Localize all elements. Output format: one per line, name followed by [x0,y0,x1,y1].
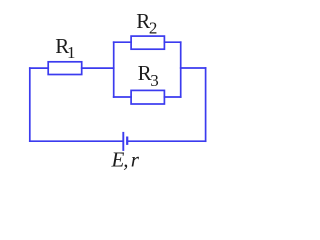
svg-text:1: 1 [67,43,76,62]
svg-text:2: 2 [149,19,158,38]
svg-text:3: 3 [150,71,159,90]
svg-text:,: , [123,147,128,171]
svg-text:r: r [131,147,140,171]
